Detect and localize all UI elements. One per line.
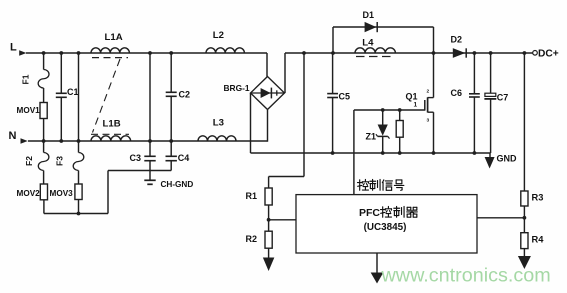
wire D1 left riser bbox=[332, 27, 334, 53]
varistor MOV2 bbox=[40, 184, 47, 200]
svg-text:F2: F2 bbox=[24, 156, 34, 166]
wire D1 top run bbox=[333, 26, 434, 28]
ground arrow below R2 bbox=[263, 258, 275, 272]
ground arrow below controller bbox=[376, 253, 378, 273]
svg-text:R2: R2 bbox=[246, 234, 258, 244]
junction top rail C2 bbox=[169, 51, 173, 55]
capacitor C1 bbox=[60, 53, 62, 93]
capacitor C6 bbox=[473, 53, 475, 94]
svg-text:3: 3 bbox=[427, 118, 430, 124]
capacitor C7 bbox=[490, 53, 492, 93]
svg-text:(UC3845): (UC3845) bbox=[364, 222, 407, 233]
wire bridge bottom lead bbox=[267, 110, 269, 142]
capacitor C5 bbox=[332, 53, 334, 94]
junction gate line Z1 bbox=[381, 108, 385, 112]
svg-text:C3: C3 bbox=[130, 153, 142, 163]
wire top rail L segment bbox=[26, 52, 267, 54]
wire choke left edge bbox=[78, 53, 80, 141]
svg-text:MOV2: MOV2 bbox=[17, 189, 41, 198]
diode D1 bbox=[365, 22, 377, 32]
resistor R4 bbox=[523, 218, 525, 233]
junction R1 R2 bbox=[267, 218, 271, 222]
svg-text:D1: D1 bbox=[363, 10, 375, 20]
svg-text:1: 1 bbox=[414, 102, 418, 109]
svg-text:C1: C1 bbox=[67, 87, 79, 97]
svg-text:R1: R1 bbox=[246, 191, 258, 201]
label control signal bbox=[358, 180, 369, 191]
wire bottom rail N segment bbox=[28, 140, 268, 142]
chassis ground CH-GND bbox=[149, 171, 151, 180]
capacitor C2 bbox=[170, 53, 172, 92]
junction top rail C6 bbox=[473, 51, 477, 55]
junction top rail R3 bbox=[523, 51, 527, 55]
junction ground rail R gate bbox=[398, 151, 402, 155]
svg-text:F3: F3 bbox=[55, 156, 65, 166]
inductor L4 bbox=[355, 48, 395, 53]
svg-text:Q1: Q1 bbox=[406, 92, 418, 102]
svg-text:C2: C2 bbox=[179, 90, 191, 100]
junction top rail C1 bbox=[59, 51, 63, 55]
choke coupling dashed link bbox=[93, 59, 121, 133]
junction ground rail Q1 source bbox=[432, 151, 436, 155]
junction top rail D1 left bbox=[331, 51, 335, 55]
wire control signal riser bbox=[353, 110, 355, 195]
zener Z1 bbox=[382, 110, 384, 125]
op-amp U1 PFC controller UC3845 bbox=[296, 195, 477, 253]
junction top rail C7 bbox=[489, 51, 493, 55]
junction top rail sense bbox=[302, 51, 306, 55]
junction top rail choke right bbox=[148, 51, 152, 55]
svg-text:C4: C4 bbox=[178, 153, 190, 163]
wire bridge negative lead bbox=[250, 93, 252, 153]
varistor MOV1 bbox=[40, 103, 47, 119]
inductor L1A bbox=[91, 48, 129, 53]
svg-text:L1A: L1A bbox=[105, 32, 123, 43]
svg-text:PFC: PFC bbox=[359, 207, 380, 219]
fuse F3 bbox=[78, 141, 80, 153]
svg-text:L2: L2 bbox=[213, 30, 224, 41]
svg-text:C5: C5 bbox=[339, 92, 351, 102]
junction bottom rail choke right bbox=[148, 139, 152, 143]
wire D1 right riser bbox=[433, 27, 435, 53]
junction top rail choke left bbox=[77, 51, 81, 55]
svg-text:DC+: DC+ bbox=[538, 48, 559, 59]
junction ground rail Z1 bbox=[381, 151, 385, 155]
inductor L3 bbox=[198, 136, 236, 141]
svg-text:BRG-1: BRG-1 bbox=[224, 83, 250, 93]
junction gate line R gate bbox=[398, 108, 402, 112]
resistor R2 bbox=[268, 220, 270, 231]
diode D2 bbox=[453, 48, 466, 58]
capacitor C3 bbox=[149, 141, 151, 156]
resistor R1 bbox=[265, 188, 272, 205]
svg-text:MOV3: MOV3 bbox=[50, 189, 74, 198]
inductor L2 bbox=[206, 48, 244, 53]
wire MOV bottom bus bbox=[44, 213, 108, 215]
svg-text:N: N bbox=[9, 130, 17, 142]
ground arrow below R4 bbox=[518, 256, 531, 269]
svg-text:R3: R3 bbox=[532, 192, 544, 202]
junction top rail D1 right bbox=[432, 51, 436, 55]
junction R3 R4 bbox=[523, 216, 527, 220]
svg-text:L: L bbox=[10, 42, 17, 54]
svg-text:C7: C7 bbox=[497, 93, 509, 103]
inductor L1B bbox=[91, 136, 131, 141]
wire bridge right lead bbox=[284, 53, 286, 93]
node DC+ output bbox=[533, 51, 538, 56]
ground GND bbox=[489, 153, 491, 157]
transistor Q1 MOSFET bbox=[433, 53, 435, 98]
junction ground rail C6 bbox=[473, 151, 477, 155]
capacitor C4 bbox=[170, 141, 172, 156]
junction bottom rail C1 bbox=[59, 139, 63, 143]
fuse F1 bbox=[43, 53, 45, 70]
resistor R gate bbox=[399, 110, 401, 121]
wire choke right edge bbox=[149, 53, 151, 141]
wire bridge top lead bbox=[266, 53, 268, 77]
svg-text:L3: L3 bbox=[213, 118, 224, 129]
svg-text:2: 2 bbox=[427, 88, 430, 94]
junction ground rail C5 bbox=[331, 151, 335, 155]
wire ground rail bbox=[251, 152, 491, 154]
varistor MOV3 bbox=[75, 184, 82, 200]
junction top rail F1 bbox=[42, 51, 46, 55]
svg-text:Z1: Z1 bbox=[366, 132, 377, 142]
svg-text:C6: C6 bbox=[451, 88, 463, 98]
resistor R3 bbox=[523, 53, 525, 191]
svg-text:L1B: L1B bbox=[103, 118, 121, 129]
fuse F2 bbox=[43, 141, 45, 153]
svg-text:CH-GND: CH-GND bbox=[161, 180, 194, 189]
junction bottom rail F1 bbox=[42, 139, 46, 143]
bridge rectifier BRG-1 bbox=[251, 77, 285, 110]
wire controller to R3R4 node bbox=[477, 217, 524, 219]
junction bottom rail C2 bbox=[169, 139, 173, 143]
svg-text:MOV1: MOV1 bbox=[17, 106, 41, 115]
svg-text:L4: L4 bbox=[362, 37, 374, 48]
junction bottom rail choke left bbox=[77, 139, 81, 143]
wire top rail bridge-to-DC+ segment bbox=[285, 52, 533, 54]
svg-text:www.cntronics.com: www.cntronics.com bbox=[381, 265, 551, 287]
wire R divider to controller bbox=[269, 219, 296, 221]
svg-text:F1: F1 bbox=[21, 74, 31, 84]
svg-text:D2: D2 bbox=[451, 35, 463, 45]
svg-text:GND: GND bbox=[497, 153, 518, 163]
wire gate line bbox=[354, 109, 425, 111]
wire sense drop bbox=[303, 53, 305, 177]
svg-text:R4: R4 bbox=[532, 235, 545, 245]
junction MOV3 bottom bus bbox=[77, 212, 81, 216]
